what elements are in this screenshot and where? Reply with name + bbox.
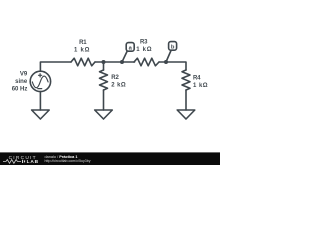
svg-text:1 kΩ: 1 kΩ: [136, 47, 151, 53]
svg-text:R1: R1: [79, 40, 87, 46]
svg-text:http://circuitlab.com/c/5uy3by: http://circuitlab.com/c/5uy3by: [45, 159, 91, 163]
svg-text:1 kΩ: 1 kΩ: [193, 83, 208, 89]
svg-text:60 Hz: 60 Hz: [12, 86, 28, 92]
svg-text:LAB: LAB: [27, 159, 39, 165]
svg-text:R4: R4: [193, 76, 201, 82]
svg-text:sine: sine: [15, 79, 28, 85]
svg-text:1 kΩ: 1 kΩ: [74, 48, 90, 54]
svg-text:R2: R2: [111, 75, 119, 81]
svg-text:2 kΩ: 2 kΩ: [111, 83, 126, 89]
svg-text:R3: R3: [140, 39, 148, 45]
svg-text:b: b: [171, 45, 175, 51]
svg-text:V9: V9: [20, 72, 28, 78]
